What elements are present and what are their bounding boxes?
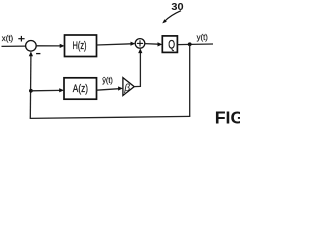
wire junction to A(z) (31, 88, 64, 92)
svg-text:ŷ(t): ŷ(t) (102, 75, 113, 85)
wire S2 to Q (145, 42, 163, 46)
wire feedback bottom horizontal (30, 116, 191, 118)
node junction dot feedback to A(z) (29, 89, 33, 93)
svg-text:y(t): y(t) (197, 32, 208, 42)
wire Q to y(t) output (177, 43, 213, 46)
minus sign at summer S1 (36, 53, 40, 55)
svg-text:β: β (123, 83, 130, 94)
block Q quantizer (162, 36, 177, 53)
wire A(z) to amplifier (97, 86, 123, 90)
wire input x(t) to summer S1 (2, 45, 26, 47)
svg-text:30: 30 (171, 1, 183, 13)
svg-text:H(z): H(z) (73, 40, 87, 52)
plus sign at summer S1 (18, 36, 24, 42)
summing junction S2 (circled plus) (135, 39, 145, 49)
block H(z) (65, 35, 97, 57)
amplifier beta triangle (123, 78, 134, 96)
wire feedback right vertical (189, 44, 191, 116)
node junction dot at output (188, 42, 192, 46)
wire feedback left vertical into S1 minus input (29, 51, 33, 118)
svg-text:Q: Q (168, 38, 175, 52)
summing junction S1 (26, 41, 37, 52)
wire S1 to H(z) (36, 44, 64, 48)
svg-text:FIG: FIG (215, 108, 240, 128)
svg-text:x(t): x(t) (2, 33, 14, 43)
wire H(z) to summer S2 (97, 42, 136, 46)
leader arrow from 30 to Q (162, 11, 181, 24)
svg-text:A(z): A(z) (73, 83, 88, 95)
wire amplifier to S2 bottom input (134, 48, 142, 86)
block A(z) (64, 78, 97, 99)
